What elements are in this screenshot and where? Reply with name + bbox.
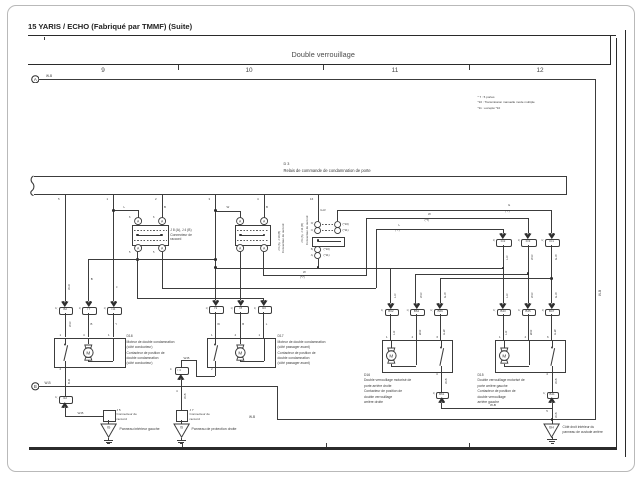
svg-text:M: M: [238, 350, 242, 355]
svg-text:B: B: [34, 384, 37, 389]
svg-text:IG: IG: [107, 426, 111, 430]
svg-text:M: M: [389, 354, 393, 359]
svg-text:A: A: [34, 76, 37, 81]
svg-text:M: M: [502, 354, 506, 359]
svg-text:BH: BH: [550, 425, 555, 429]
svg-text:M: M: [87, 350, 91, 355]
